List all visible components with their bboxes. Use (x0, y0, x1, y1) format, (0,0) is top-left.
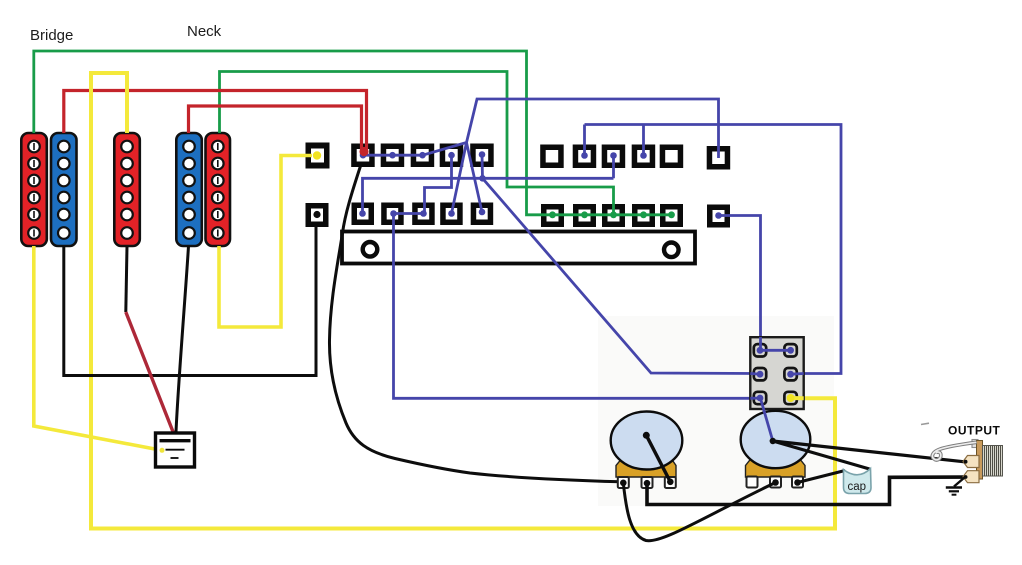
jack tip lug (963, 456, 979, 468)
output jack (972, 440, 1003, 480)
wire red A bar2 to switch sq1 (64, 91, 367, 151)
svg-text:Neck: Neck (187, 23, 222, 40)
terminal strip left row1 (351, 144, 494, 168)
wire black pot2 center to jack tip (773, 441, 965, 462)
wire black bar2 loop to black terminal (64, 226, 316, 376)
toggle lug dots (757, 347, 795, 402)
wire yellow toggle bottom-right lug overlay (791, 396, 804, 400)
backdrop panel (598, 316, 834, 506)
pot1 body (611, 412, 683, 470)
pot2 base (746, 458, 806, 477)
yellow terminal dot (313, 151, 321, 159)
pickup coil P4 neck blue (176, 133, 202, 246)
wire blue toggle top bridge (760, 349, 791, 352)
wire black bar4 to battery (176, 246, 189, 432)
wire black pot1 lug2 to jack sleeve (647, 477, 964, 504)
green junction dots (549, 211, 675, 218)
pickup coil P3 middle red (114, 133, 140, 246)
wire blue top bus right group (585, 125, 842, 374)
wire yellow bar3 to toggle lug (91, 73, 835, 529)
pot2 body (741, 411, 811, 468)
terminal strip right row2 (541, 204, 683, 227)
terminal single left yellow (306, 143, 330, 169)
wire blue into pot2 center overlay (761, 399, 773, 442)
toggle lugs (754, 344, 797, 404)
terminal single left black (306, 203, 329, 227)
wire green B bar5 to right row2 sq3 (220, 72, 614, 215)
wire blue toggle bottom-left to pot2 center (761, 399, 773, 442)
toggle wire overlays (750, 337, 803, 398)
pot2 lugs (747, 477, 804, 488)
wire blue right single row2 to toggle top-left (719, 216, 761, 351)
svg-text:Bridge: Bridge (30, 27, 73, 44)
wire blue apex to left row2 sq5 (467, 143, 483, 213)
red junction blob (359, 147, 368, 156)
wire dark red to battery (126, 312, 174, 433)
wire yellow bar5 to yellow terminal (219, 156, 312, 328)
jack tip spring hook (932, 442, 976, 460)
wire blue selector common row1 (363, 99, 719, 158)
blue junction dots (359, 151, 722, 219)
terminal single right row1 (707, 146, 731, 170)
wire yellow bar1 to battery box (34, 246, 160, 450)
pot1 center dot (643, 432, 650, 439)
jack lug dots (964, 460, 968, 464)
pickup coil P1 bridge red (21, 133, 47, 246)
toggle switch body (750, 337, 803, 409)
jack sleeve lug (963, 471, 979, 483)
wire black bar3 stub (126, 246, 127, 312)
terminal strip right row1 (540, 145, 683, 169)
switch mounting bar (342, 232, 695, 264)
wire green A bar1 to right row2 (34, 51, 672, 215)
pot1 lug dots (620, 479, 674, 487)
wire black pot2 lug3 to cap (798, 471, 846, 483)
terminal strip left row2 (352, 203, 494, 226)
svg-text:cap: cap (848, 481, 867, 493)
wire red B bar4 to switch sq1 (189, 106, 362, 150)
wire blue apex to left row2 sq4 (452, 143, 467, 214)
pot1 lugs (618, 477, 676, 488)
svg-text:OUTPUT: OUTPUT (948, 424, 1001, 438)
pot2 center dot (770, 438, 776, 444)
pot1 wiper (646, 435, 670, 482)
ground symbol (946, 478, 965, 495)
capacitor cap (844, 469, 872, 494)
terminal single right row2 (707, 205, 730, 228)
black terminal dot (313, 211, 320, 218)
pickup coil P2 bridge blue (51, 133, 77, 246)
wire black switch sq1 to pot1 lug1 (329, 166, 621, 482)
wire blue sq5 row1 to junction bus (363, 155, 614, 214)
pot2 lug dots (772, 479, 801, 486)
wire blue junction diagonal to toggle mid-left (483, 178, 758, 373)
small gray dash (921, 423, 929, 424)
pickup coil P5 neck red (206, 133, 231, 246)
wire black pot2 center to cap (773, 441, 870, 469)
battery box (156, 433, 195, 467)
wire black pot1 lug1 to pot2 lug2 (623, 483, 775, 541)
wire blue Z sq4 row1 to sq3 row2 to sq2 row2 down to toggle bottom-left (394, 155, 758, 398)
pot1 base (616, 458, 676, 477)
